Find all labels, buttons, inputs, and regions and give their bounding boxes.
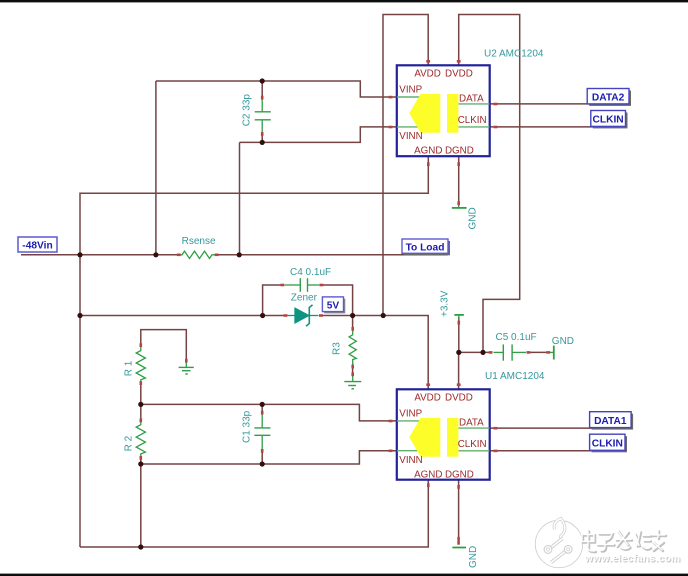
svg-text:CLKIN: CLKIN bbox=[458, 115, 487, 126]
svg-text:U1 AMC1204: U1 AMC1204 bbox=[485, 371, 545, 382]
U2 modulator pentagon bbox=[409, 94, 440, 133]
svg-text:R 1: R 1 bbox=[124, 360, 135, 376]
junction -48Vin rail / zener rail bbox=[77, 313, 82, 318]
junction C4 left leg / zener rail bbox=[260, 313, 265, 318]
svg-text:AGND: AGND bbox=[414, 470, 442, 481]
pin marks C5 bbox=[489, 351, 493, 354]
wire C4 left leg bbox=[263, 285, 283, 316]
wire R1 to R2 rail bbox=[140, 384, 142, 421]
wire U2 CLKIN to CLKIN bbox=[490, 126, 626, 128]
wire C1 top stub bbox=[261, 404, 263, 412]
svg-text:VINN: VINN bbox=[399, 455, 422, 466]
resistor Rsense bbox=[179, 251, 217, 258]
wire zener rail right to U1 AVDD bbox=[321, 316, 428, 390]
wire C2 bottom net to U2 VINN bbox=[240, 127, 397, 142]
wire C1 bottom stub bbox=[261, 451, 263, 464]
pin marks R3 bbox=[351, 327, 354, 331]
placeholder groups bbox=[136, 99, 554, 548]
pin marks C1 bbox=[261, 411, 264, 415]
svg-text:DATA: DATA bbox=[459, 417, 484, 428]
pin marks U2 bbox=[426, 60, 430, 63]
junction right rail / C5 wire bbox=[480, 350, 485, 355]
svg-text:CLKIN: CLKIN bbox=[592, 439, 623, 450]
pin marks R1 bbox=[140, 343, 143, 347]
wire R3 bottom link bbox=[352, 367, 354, 375]
svg-text:www.elecfans.com: www.elecfans.com bbox=[584, 553, 681, 564]
svg-text:DVDD: DVDD bbox=[445, 68, 473, 79]
in-chip wire U1 DATA bbox=[458, 427, 489, 429]
svg-text:DATA1: DATA1 bbox=[594, 416, 627, 427]
node 5V port bbox=[324, 299, 345, 314]
svg-text:-48Vin: -48Vin bbox=[22, 241, 52, 252]
wire top-right n-shape bbox=[459, 15, 520, 353]
wire bottom rail U1 AGND bbox=[80, 480, 428, 547]
svg-text:DGND: DGND bbox=[445, 146, 474, 157]
wire +3.3V rail down bbox=[458, 317, 460, 352]
wire top-left n-shape vertical long bbox=[383, 15, 428, 316]
zener diode cathode bar bbox=[306, 305, 312, 326]
junction C1 bottom bbox=[260, 461, 265, 466]
watermark logo pads bbox=[544, 546, 552, 554]
junction C2 left rail / Rsense wire bbox=[153, 252, 158, 257]
wire U1 DATA to DATA1 bbox=[490, 427, 630, 429]
power bar +3.3V bbox=[454, 314, 464, 316]
svg-text:VINP: VINP bbox=[399, 85, 422, 96]
pin mark +3.3V bbox=[458, 321, 461, 325]
node -48Vin port bbox=[18, 237, 57, 252]
watermark logo circle bbox=[537, 522, 582, 567]
watermark CJK text 电子发烧友 (drawn strokes) bbox=[583, 532, 666, 553]
pin marks C2 bbox=[261, 96, 264, 100]
in-chip wire U2 DATA bbox=[458, 103, 489, 105]
wire C2 left rail down bbox=[155, 81, 157, 255]
junction To-Load vertical / zener rail bbox=[381, 313, 386, 318]
junction C2 bottom rail / Rsense wire bbox=[237, 252, 242, 257]
pin marks R2 bbox=[140, 419, 143, 423]
junction bottom rail bbox=[138, 544, 143, 549]
wire C2 bottom stub bbox=[261, 133, 263, 142]
wire C5 to GND bbox=[530, 351, 550, 353]
svg-text:AVDD: AVDD bbox=[414, 68, 441, 79]
pin mark R1 ground bbox=[185, 359, 188, 363]
ground earth near R1 bbox=[185, 361, 187, 367]
in-chip wire U2 VINP bbox=[397, 96, 420, 98]
watermark logo traces bbox=[549, 539, 563, 550]
wire U2 DGND stub bbox=[458, 157, 460, 206]
wire C2 top net to U2 VINP bbox=[156, 81, 397, 97]
pin marks U1 bbox=[426, 383, 430, 386]
op-amp U2 AMC1204 body bbox=[397, 65, 490, 156]
wire U2 DATA to DATA2 bbox=[490, 103, 629, 105]
svg-text:C2 33p: C2 33p bbox=[242, 94, 253, 127]
node DATA1 port bbox=[592, 414, 634, 430]
U1 output buffer rect bbox=[447, 418, 458, 457]
svg-text:AVDD: AVDD bbox=[414, 392, 441, 403]
wire C4 right leg bbox=[321, 285, 353, 316]
in-chip wire U1 CLKIN bbox=[458, 450, 489, 452]
junction C4 right leg / R3 / zener rail bbox=[350, 313, 355, 318]
ground bar below U1 DGND bbox=[452, 547, 466, 549]
svg-text:AGND: AGND bbox=[414, 146, 442, 157]
svg-text:VINP: VINP bbox=[399, 409, 422, 420]
capacitor C5 bbox=[494, 351, 504, 353]
resistor R1 bbox=[136, 346, 145, 384]
wire C1 bottom net to U1 VINN bbox=[141, 451, 397, 464]
svg-text:DATA2: DATA2 bbox=[592, 93, 625, 104]
wire C2 bottom rail down bbox=[239, 142, 241, 254]
svg-text:C4 0.1uF: C4 0.1uF bbox=[290, 267, 331, 278]
node CLKIN port upper bbox=[593, 113, 628, 129]
wire U1 DVDD stub bbox=[458, 352, 460, 389]
junction +3.3V / C5 wire bbox=[456, 350, 461, 355]
capacitor C2 bbox=[261, 99, 263, 112]
capacitor C4 bbox=[285, 284, 301, 286]
svg-text:U2 AMC1204: U2 AMC1204 bbox=[484, 49, 544, 60]
svg-text:DATA: DATA bbox=[459, 93, 484, 104]
bottom border bar bbox=[0, 574, 688, 576]
wire U1 CLKIN to CLKIN bbox=[490, 450, 627, 452]
junction C2 top bbox=[260, 78, 265, 83]
svg-text:R 2: R 2 bbox=[124, 435, 135, 451]
svg-text:CLKIN: CLKIN bbox=[458, 439, 487, 450]
junction R2 bottom node bbox=[138, 461, 143, 466]
top border bar bbox=[0, 0, 688, 2]
svg-text:VINN: VINN bbox=[399, 131, 422, 142]
wire U2 AGND run bbox=[80, 157, 428, 548]
svg-text:5V: 5V bbox=[327, 300, 340, 311]
svg-text:GND: GND bbox=[552, 336, 574, 347]
capacitor C1 bbox=[261, 414, 263, 428]
svg-text:C5 0.1uF: C5 0.1uF bbox=[496, 332, 537, 343]
node DATA2 port bbox=[589, 91, 631, 106]
node CLKIN port lower bbox=[592, 436, 627, 452]
wire C2 top stub bbox=[261, 81, 263, 99]
node To Load port bbox=[404, 241, 450, 255]
op-amp U1 AMC1204 body bbox=[397, 389, 490, 479]
junction -48Vin rail / Rsense wire bbox=[77, 252, 82, 257]
resistor R3 bbox=[349, 329, 356, 367]
ground bar right of C5 bbox=[550, 351, 554, 353]
junction R1/R2 node bbox=[138, 402, 143, 407]
wire zener rail left bbox=[80, 315, 286, 317]
wire Rsense to To Load bbox=[217, 254, 448, 256]
svg-text:+3.3V: +3.3V bbox=[440, 290, 451, 317]
in-chip wire U2 VINN bbox=[397, 126, 420, 128]
wire +3.3V to C5 bbox=[459, 351, 489, 353]
watermark logo horn bbox=[554, 519, 565, 539]
pin marks zener bbox=[284, 314, 288, 317]
ground bar below U2 DGND bbox=[458, 205, 460, 208]
in-chip wire U1 VINP bbox=[397, 420, 420, 422]
wire R3 top stub bbox=[352, 316, 354, 329]
U2 output buffer rect bbox=[447, 94, 458, 133]
svg-text:C1 33p: C1 33p bbox=[241, 410, 252, 443]
wire R1 top to ground arm bbox=[141, 330, 187, 360]
svg-text:GND: GND bbox=[468, 546, 479, 568]
junction C2 bottom bbox=[260, 140, 265, 145]
zener diode leads bbox=[288, 315, 296, 317]
svg-text:Rsense: Rsense bbox=[182, 236, 216, 247]
U1 modulator pentagon bbox=[409, 418, 440, 457]
pin marks C4 bbox=[281, 284, 285, 287]
in-chip wire U2 CLKIN bbox=[458, 126, 489, 128]
resistor R2 bbox=[136, 420, 145, 458]
svg-text:Zener: Zener bbox=[291, 292, 318, 303]
svg-text:R3: R3 bbox=[332, 342, 343, 355]
zener diode triangle bbox=[295, 308, 309, 323]
ground earth below R3 bbox=[352, 375, 354, 382]
junction C1 top bbox=[260, 402, 265, 407]
svg-text:GND: GND bbox=[468, 207, 479, 229]
wire -48Vin to Rsense bbox=[21, 254, 179, 256]
in-chip wire U1 VINN bbox=[397, 450, 420, 452]
svg-text:DGND: DGND bbox=[445, 470, 474, 481]
wire C1 top net to U1 VINP bbox=[141, 404, 397, 421]
pin marks Rsense bbox=[177, 254, 181, 257]
wire R2 bottom rail bbox=[140, 458, 142, 548]
svg-text:CLKIN: CLKIN bbox=[593, 115, 624, 126]
wire U1 DGND stub bbox=[458, 480, 460, 545]
svg-text:To Load: To Load bbox=[406, 242, 445, 253]
svg-text:DVDD: DVDD bbox=[445, 392, 473, 403]
